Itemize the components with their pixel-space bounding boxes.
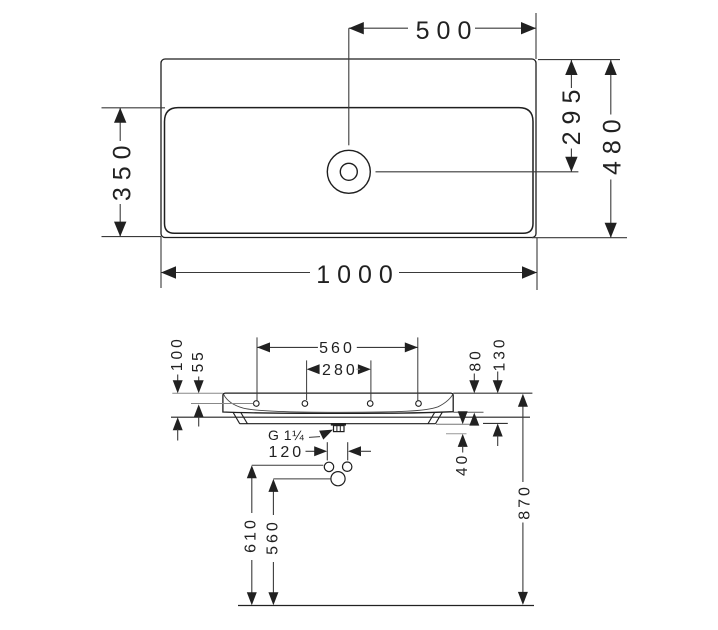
130 lower tick [483,422,508,424]
svg-text:480: 480 [599,112,627,175]
underside right slants [436,412,443,424]
dim 1000 arrows [161,266,176,278]
fixing hole 1 [253,401,259,407]
560 extension lines [256,337,258,401]
dim 870 line [522,406,524,482]
extension line bottom-left corner down [160,237,162,288]
svg-text:610: 610 [243,517,260,553]
svg-text:55: 55 [190,349,207,372]
extension line drain centre right [376,171,579,173]
dim 480 line [610,60,612,115]
svg-text:500: 500 [416,17,479,45]
svg-text:560: 560 [319,340,355,357]
280 extension lines [306,360,308,400]
basin outer outline (top view) [161,59,536,238]
drain inner circle [340,163,357,180]
svg-text:80: 80 [468,348,485,371]
svg-text:295: 295 [558,83,586,146]
80 lower tick [454,411,484,413]
dim 560 arrows [257,342,270,352]
dim 280 arrows [307,364,320,374]
extension line basin bottom left [102,236,162,238]
svg-text:100: 100 [169,336,186,371]
underside left slants [233,412,240,424]
svg-text:280: 280 [322,362,358,379]
dim 610 line [251,477,253,513]
fixing hole 2 [302,401,308,407]
dim 1000 line [161,272,310,274]
svg-text:120: 120 [268,444,304,461]
40 upper tick [436,423,470,425]
40 lower tick [446,433,467,435]
svg-text:40: 40 [454,453,471,476]
extension line top-right corner up [535,13,537,59]
dim 560v line [272,491,274,515]
fixing hole 3 [367,401,373,407]
supply hole right [343,462,352,471]
dim 80 stem+arrows [473,374,475,382]
svg-text:870: 870 [516,484,533,520]
fixing hole 4 [416,401,422,407]
dim 560v extension [273,478,331,480]
dim 295 line [570,60,572,88]
dim 560v arrows [268,479,278,492]
dim 350 line [119,108,121,141]
svg-text:130: 130 [491,336,508,371]
dim 610 extension [252,464,323,466]
supply hole left [324,462,333,471]
dim 610 arrows [247,465,257,478]
280 right stub [356,368,360,370]
drain fitting bar [331,423,346,426]
extension line top-right corner right [538,59,620,61]
holes line extension left [191,403,253,405]
dim 560 top line [257,346,318,348]
dim 120 arrows and ticks [306,450,316,452]
svg-text:1000: 1000 [316,261,400,289]
basin top extension right [453,392,532,394]
wall mounting line [171,416,530,418]
dim 500 arrows [349,22,364,34]
G 1 1/4 leader [309,436,320,439]
basin top extension left [172,392,223,394]
floor line [238,605,534,607]
dim 480 arrows [605,60,617,75]
dim 295 arrows [565,60,577,75]
extension line from drain to 500 [348,28,350,145]
extension line deck top left [102,107,166,109]
dim 55 stem+arrows [198,377,200,382]
dim 500 line [349,27,408,29]
dim 100 stem+arrows [177,375,179,382]
drain outer circle [327,150,370,193]
svg-text:560: 560 [264,519,281,555]
dim 870 arrows [518,394,528,407]
dim 350 arrows [114,108,126,123]
basin body front view [223,393,453,413]
extension line bottom-right corner right [532,237,627,239]
dim 40 arrows [458,411,468,424]
extension line bottom-right corner down [536,238,538,290]
basin deck inner rounded rect [165,108,534,234]
svg-text:G 1¼: G 1¼ [268,427,304,443]
drain fitting body [334,426,345,432]
svg-text:350: 350 [108,138,136,201]
underside trapezoid bottom [240,423,436,425]
inner bowl rim curve [224,394,453,412]
drain hole big [331,472,345,486]
dim 130 stem+arrows [497,372,499,382]
